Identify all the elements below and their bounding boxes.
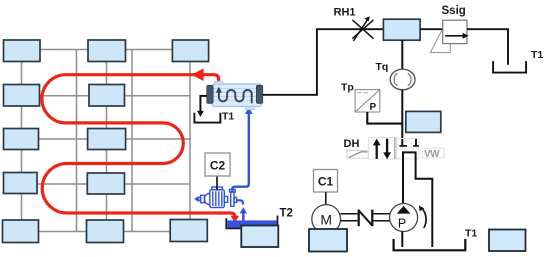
flow sensor Tq: [390, 69, 415, 90]
tank T2 right wall: [277, 216, 279, 229]
T1 probe bracket left: [194, 113, 220, 123]
svg-text:T2: T2: [280, 208, 293, 220]
wire C1 to motor: [325, 192, 327, 205]
wire Tp to main pipe: [367, 112, 402, 124]
shaft coupling: [341, 210, 390, 227]
wire Tq down to junction: [401, 90, 403, 145]
wire C2 to pump: [216, 176, 218, 191]
heat exchanger right cap: [256, 85, 262, 103]
box top blue: [383, 19, 420, 40]
box r5c2: [87, 220, 124, 243]
blue arrow into exchanger: [245, 107, 253, 114]
grid horizontal line H4: [22, 183, 191, 185]
pump C2 (blue gear pump icon): [196, 187, 237, 208]
heat exchanger coil: [219, 89, 252, 103]
heat exchanger top port tab: [215, 81, 224, 84]
box r5c1: [3, 220, 39, 243]
grid vertical line V5: [189, 50, 191, 232]
box r1c1: [4, 40, 41, 62]
blue pump-to-exchanger pipe: [232, 113, 248, 193]
svg-text:T1: T1: [465, 228, 477, 240]
heat exchanger coil arrow: [216, 87, 222, 93]
grid vertical line V1: [21, 50, 23, 232]
discharge channel pipe: [403, 152, 432, 247]
box r4c2: [87, 173, 124, 194]
box r4c1: [4, 173, 38, 194]
svg-text:Ssig: Ssig: [442, 5, 466, 17]
box r3c2: [88, 129, 126, 150]
red flow arrow on top run: [191, 68, 203, 81]
motor M: [312, 205, 341, 234]
separator bar: [394, 138, 396, 159]
red serpentine supply pipe: [42, 75, 235, 217]
grid vertical line V2: [76, 50, 78, 232]
grid horizontal line H3: [22, 138, 191, 140]
Ssig parallelogram: [430, 31, 450, 53]
box r3c1: [4, 129, 39, 150]
blue suction elbow from pump: [237, 200, 243, 204]
up arrow: [376, 145, 378, 159]
heat exchanger body: [212, 84, 263, 107]
pipe Ssig to tank T1 top right: [467, 29, 508, 65]
tank T2 front box: [241, 226, 278, 248]
grid vertical line V4: [131, 50, 133, 232]
tank T1 top right bracket: [493, 61, 526, 73]
heat exchanger bottom port tab: [246, 106, 255, 109]
arrow down into T1 probe: [197, 111, 204, 117]
pipe from exchanger right to valve RH1: [263, 29, 384, 95]
svg-text:M: M: [320, 212, 332, 228]
svg-text:T1: T1: [531, 49, 543, 61]
box right middle blue: [406, 111, 441, 132]
box r2c1: [4, 85, 40, 107]
controller box C2: [205, 153, 230, 176]
red arrow into tank T2: [231, 216, 240, 223]
pump rotation arrow: [422, 208, 427, 228]
valve RH1: [352, 20, 373, 41]
tank T2 water: [227, 220, 276, 227]
heat exchanger stripes: [213, 89, 262, 101]
svg-text:Tq: Tq: [376, 61, 389, 73]
tank T1 bottom bracket: [394, 239, 466, 250]
grid horizontal line H2: [22, 95, 191, 97]
svg-text:C1: C1: [318, 175, 334, 189]
svg-text:T1: T1: [222, 111, 234, 123]
pump P: [390, 204, 418, 232]
DH ramp icon: [347, 151, 368, 159]
box r1c3: [172, 40, 208, 62]
pump suction pipe: [401, 232, 403, 248]
down arrow: [386, 139, 388, 154]
svg-text:VW: VW: [424, 149, 440, 160]
pipe from exchanger left to sensor: [200, 96, 206, 111]
svg-text:Tp: Tp: [341, 82, 354, 94]
Ssig arrow: [445, 35, 465, 37]
grid vertical line V3: [106, 50, 108, 232]
annotation frame VW: [422, 148, 444, 158]
svg-text:P: P: [370, 102, 377, 113]
heat exchanger left cap: [207, 85, 213, 103]
valve RH1 arrowhead: [365, 16, 370, 21]
pipe end cap: [399, 145, 407, 147]
box r5c3: [170, 220, 207, 242]
svg-text:P: P: [398, 217, 406, 231]
grid horizontal line H1: [22, 49, 191, 51]
box below motor blue: [309, 229, 347, 252]
annotation frame arrows: [369, 138, 397, 160]
controller box C1: [314, 170, 338, 193]
blue suction arrow from tank T2: [240, 207, 247, 213]
svg-text:RH1: RH1: [334, 7, 356, 19]
pipe box to Ssig: [420, 28, 443, 30]
box r2c2: [89, 85, 125, 107]
box r1c2: [88, 40, 126, 62]
svg-text:DH: DH: [344, 138, 360, 150]
blue suction pipe stub: [242, 213, 244, 221]
annotation frame stubs: [397, 139, 419, 159]
wire top box down to Tq: [401, 40, 403, 69]
Ssig box: [443, 20, 467, 43]
port stub: [415, 139, 417, 145]
box bottom right blue: [489, 230, 526, 252]
grid horizontal line H5: [22, 231, 191, 233]
tank T2 walls: [226, 218, 278, 228]
pressure sensor Tp: [355, 90, 380, 113]
svg-text:C2: C2: [210, 159, 226, 173]
